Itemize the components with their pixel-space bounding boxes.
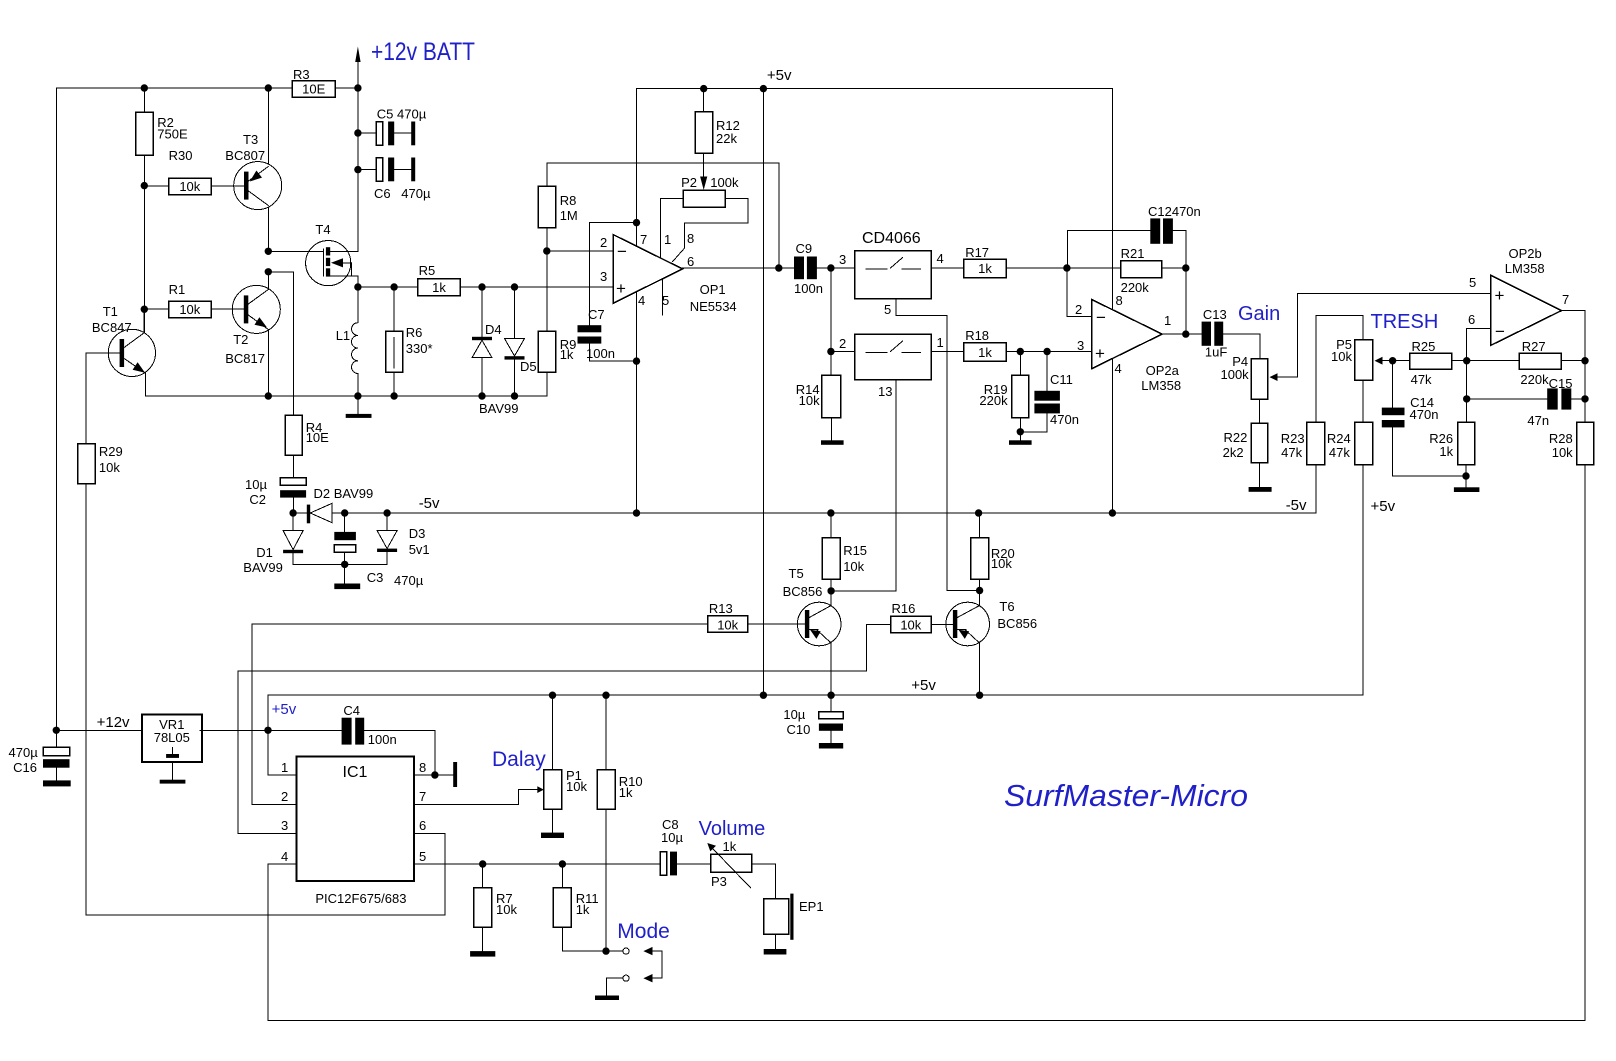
wire R23 top to P5 top — [1316, 315, 1363, 422]
inductor L1 — [336, 287, 358, 396]
svg-text:5: 5 — [1469, 275, 1476, 290]
svg-text:4: 4 — [638, 293, 645, 308]
svg-text:Dalay: Dalay — [492, 748, 546, 771]
svg-text:P2: P2 — [681, 175, 697, 190]
svg-text:C9: C9 — [796, 241, 813, 256]
svg-text:10k: 10k — [1552, 445, 1573, 460]
svg-text:NE5534: NE5534 — [690, 299, 737, 314]
svg-text:+5v: +5v — [1371, 498, 1396, 515]
wire OP2b pin6 — [1463, 312, 1491, 422]
svg-text:T3: T3 — [243, 132, 258, 147]
svg-text:47k: 47k — [1281, 445, 1302, 460]
potentiometer P4 — [1220, 294, 1490, 400]
svg-text:10k: 10k — [566, 779, 587, 794]
svg-text:4: 4 — [281, 849, 288, 864]
svg-text:5: 5 — [419, 849, 426, 864]
svg-text:R5: R5 — [419, 263, 436, 278]
svg-text:T5: T5 — [789, 566, 804, 581]
wire feedback row R8 top to OP1 output — [547, 163, 783, 272]
wire +5v riser to bottom +5v row — [267, 695, 269, 775]
svg-text:C7: C7 — [588, 307, 605, 322]
svg-text:-5v: -5v — [419, 495, 440, 512]
op-amp OP2a — [1092, 300, 1181, 394]
svg-text:C15: C15 — [1549, 376, 1573, 391]
svg-text:10k: 10k — [99, 460, 120, 475]
svg-text:13: 13 — [878, 384, 892, 399]
svg-text:C10: C10 — [787, 722, 811, 737]
svg-text:D4: D4 — [485, 322, 502, 337]
transistor T4 mosfet — [265, 222, 358, 287]
diode D5 — [505, 287, 537, 396]
svg-text:R29: R29 — [99, 444, 123, 459]
wire +12v node row — [53, 714, 142, 734]
svg-text:1k: 1k — [978, 345, 992, 360]
pin 8 of OP2a — [1112, 89, 1122, 310]
resistor R8 — [538, 163, 577, 251]
svg-text:BC807: BC807 — [225, 148, 265, 163]
IC1 PIC12F675/683 — [296, 757, 414, 906]
svg-text:BAV99: BAV99 — [479, 401, 519, 416]
svg-text:47k: 47k — [1329, 445, 1350, 460]
resistor R22 — [1223, 399, 1272, 492]
svg-text:R23: R23 — [1281, 431, 1305, 446]
svg-text:C16: C16 — [13, 760, 37, 775]
svg-text:470µ: 470µ — [9, 745, 39, 760]
svg-text:100n: 100n — [586, 346, 615, 361]
svg-text:1: 1 — [937, 335, 944, 350]
svg-text:LM358: LM358 — [1505, 261, 1545, 276]
resistor R25 — [1410, 339, 1520, 387]
svg-text:470n: 470n — [1410, 407, 1439, 422]
svg-text:2: 2 — [600, 235, 607, 250]
svg-text:470µ: 470µ — [401, 186, 431, 201]
svg-text:8: 8 — [687, 231, 694, 246]
svg-text:2k2: 2k2 — [1223, 445, 1244, 460]
capacitor C6 — [354, 158, 431, 202]
svg-text:5v1: 5v1 — [409, 542, 430, 557]
resistor R14 — [796, 375, 844, 445]
wire OP2a pin2 — [1067, 268, 1092, 317]
svg-text:R3: R3 — [293, 67, 310, 82]
ground below L1 — [346, 396, 372, 418]
capacitor C2 — [245, 455, 306, 513]
svg-text:4: 4 — [937, 251, 944, 266]
svg-text:C2: C2 — [249, 492, 266, 507]
svg-text:1M: 1M — [560, 208, 578, 223]
wire OP2a output — [1162, 268, 1202, 338]
diode D3 zener — [345, 513, 430, 564]
svg-text:R1: R1 — [169, 282, 186, 297]
wire OP2b output pin7 — [1561, 292, 1585, 422]
resistor R16 — [867, 601, 953, 671]
svg-text:6: 6 — [1468, 312, 1475, 327]
svg-text:220k: 220k — [1520, 372, 1549, 387]
svg-text:R16: R16 — [892, 601, 916, 616]
svg-text:C3: C3 — [367, 570, 384, 585]
capacitor C4 — [342, 703, 435, 775]
svg-text:750E: 750E — [157, 127, 188, 142]
capacitor C14 — [1382, 361, 1466, 476]
resistor R5 — [418, 263, 460, 296]
switch Mode contacts — [623, 947, 662, 983]
svg-text:−: − — [1096, 308, 1106, 327]
resistor R9 — [538, 251, 576, 396]
svg-text:22k: 22k — [716, 131, 737, 146]
svg-text:+12v: +12v — [97, 714, 130, 731]
svg-text:OP2a: OP2a — [1146, 363, 1180, 378]
wire bottom row pin4 to R28 — [268, 1019, 1585, 1021]
svg-text:P3: P3 — [711, 874, 727, 889]
svg-text:1k: 1k — [576, 902, 590, 917]
svg-text:10k: 10k — [991, 556, 1012, 571]
wire R2 column to T1 collector — [141, 182, 148, 333]
svg-text:470n: 470n — [1050, 412, 1079, 427]
pin 4 of OP1 — [633, 292, 645, 513]
svg-text:100n: 100n — [368, 732, 397, 747]
svg-text:BAV99: BAV99 — [243, 560, 283, 575]
svg-text:10k: 10k — [1331, 349, 1352, 364]
svg-text:+5v: +5v — [272, 701, 297, 718]
svg-text:R30: R30 — [169, 148, 193, 163]
svg-text:R22: R22 — [1224, 430, 1248, 445]
transistor T6 — [946, 587, 1037, 695]
svg-text:D5: D5 — [520, 359, 537, 374]
svg-text:1k: 1k — [432, 280, 446, 295]
svg-text:3: 3 — [600, 269, 607, 284]
svg-text:R13: R13 — [709, 601, 733, 616]
capacitor C7 — [578, 223, 637, 362]
resistor R27 — [1519, 339, 1589, 387]
svg-text:R8: R8 — [560, 193, 577, 208]
svg-text:6: 6 — [687, 254, 694, 269]
capacitor C16 — [9, 730, 71, 786]
svg-text:470µ: 470µ — [394, 573, 424, 588]
svg-text:R25: R25 — [1412, 339, 1436, 354]
svg-text:8: 8 — [419, 760, 426, 775]
svg-text:PIC12F675/683: PIC12F675/683 — [315, 891, 406, 906]
resistor R18 — [931, 328, 1091, 361]
wire C9 node down to switch2 and R14 — [827, 268, 855, 375]
svg-text:6: 6 — [419, 818, 426, 833]
pin 1 of OP1 — [660, 199, 671, 258]
svg-text:78L05: 78L05 — [154, 730, 190, 745]
svg-text:10µ: 10µ — [661, 830, 683, 845]
svg-text:Volume: Volume — [699, 818, 766, 840]
svg-text:10k: 10k — [717, 618, 738, 633]
svg-text:10E: 10E — [302, 82, 325, 97]
wire +5v bottom row — [268, 677, 1363, 699]
svg-text:2: 2 — [839, 336, 846, 351]
potentiometer P2 — [660, 175, 748, 223]
wire IC1 pin2 — [252, 624, 296, 804]
resistor R23 — [1281, 422, 1325, 513]
svg-text:D2 BAV99: D2 BAV99 — [314, 486, 374, 501]
svg-text:TRESH: TRESH — [1371, 311, 1439, 333]
svg-text:3: 3 — [839, 252, 846, 267]
capacitor C11 — [1020, 348, 1079, 432]
+5v rail top — [637, 67, 1113, 92]
pin 5 of OP1 — [662, 280, 669, 315]
svg-text:2: 2 — [281, 789, 288, 804]
IC CD4066 switch A — [839, 230, 944, 299]
capacitor C3 — [334, 513, 423, 589]
capacitor C12 — [1067, 204, 1200, 268]
wire IC1 pin6 — [86, 818, 445, 915]
resistor R29 — [78, 353, 123, 915]
svg-text:10E: 10E — [306, 430, 329, 445]
svg-text:1: 1 — [281, 760, 288, 775]
svg-text:BC856: BC856 — [783, 584, 823, 599]
wire R16 row to IC1 pin3 — [238, 671, 867, 833]
wire pin2 node — [543, 247, 613, 254]
svg-text:1k: 1k — [619, 785, 633, 800]
main ground row y=396 — [146, 392, 547, 399]
svg-text:3: 3 — [281, 818, 288, 833]
svg-text:10k: 10k — [843, 559, 864, 574]
potentiometer P1 — [541, 695, 587, 838]
svg-text:T6: T6 — [999, 599, 1014, 614]
svg-text:R15: R15 — [843, 543, 867, 558]
svg-text:47n: 47n — [1527, 413, 1549, 428]
capacitor C15 — [1467, 376, 1589, 428]
resistor R1 — [144, 282, 244, 318]
svg-text:1uF: 1uF — [1205, 345, 1227, 360]
svg-text:R21: R21 — [1121, 246, 1145, 261]
transistor T1 — [86, 304, 155, 396]
wire +12v column down to T4 drain — [330, 88, 358, 251]
svg-text:10k: 10k — [799, 393, 820, 408]
resistor R28 — [1549, 422, 1594, 1020]
wire +5v vertical distribution — [762, 89, 764, 696]
svg-text:R17: R17 — [965, 245, 989, 260]
svg-text:T4: T4 — [315, 222, 330, 237]
svg-text:220k: 220k — [979, 393, 1008, 408]
wire P3 to EP1 — [752, 864, 776, 899]
svg-text:1: 1 — [1164, 313, 1171, 328]
svg-text:1k: 1k — [1439, 444, 1453, 459]
svg-text:330*: 330* — [406, 341, 433, 356]
wire T2/T3 node to R4 — [265, 268, 294, 415]
transistor T3 — [225, 88, 281, 251]
resistor R11 — [553, 864, 623, 955]
wire P5 bottom to R24 — [1362, 380, 1364, 422]
svg-text:1: 1 — [664, 232, 671, 247]
svg-text:10µ: 10µ — [245, 477, 267, 492]
IC CD4066 switch B — [839, 334, 944, 379]
svg-text:10k: 10k — [900, 618, 921, 633]
resistor R4 — [285, 415, 329, 455]
svg-text:10k: 10k — [496, 902, 517, 917]
op-amp OP2b — [1491, 246, 1562, 345]
svg-text:R18: R18 — [965, 328, 989, 343]
resistor R24 — [1327, 422, 1373, 695]
svg-text:4: 4 — [1115, 361, 1122, 376]
resistor R21 — [1063, 246, 1189, 295]
wire IC1 pin8 to ground — [414, 760, 457, 787]
potentiometer P5 — [1331, 337, 1409, 380]
svg-text:5: 5 — [662, 293, 669, 308]
svg-text:OP2b: OP2b — [1509, 246, 1542, 261]
resistor R26 — [1429, 422, 1479, 492]
svg-text:C6: C6 — [374, 186, 391, 201]
svg-text:2: 2 — [1075, 302, 1082, 317]
svg-text:D3: D3 — [409, 526, 426, 541]
resistor R19 — [979, 348, 1031, 445]
resistor R13 — [252, 601, 805, 633]
voltage regulator VR1 78L05 — [142, 714, 202, 783]
wire -5v row — [289, 495, 1315, 517]
resistor R20 — [971, 513, 1015, 591]
wire CD4066 pin5 control — [884, 299, 979, 591]
svg-text:7: 7 — [640, 232, 647, 247]
svg-text:−: − — [617, 242, 627, 261]
svg-text:BC856: BC856 — [997, 616, 1037, 631]
svg-text:+5v: +5v — [911, 677, 936, 694]
pin 4 of OP2a — [1112, 359, 1121, 513]
svg-text:10k: 10k — [179, 179, 200, 194]
row R5 / pin3 y=287 — [354, 283, 613, 290]
wire OP1 output row — [683, 267, 795, 269]
svg-text:IC1: IC1 — [343, 764, 368, 781]
wire VR1 output +5v row — [200, 701, 341, 734]
svg-text:+12v BATT: +12v BATT — [371, 38, 475, 66]
svg-text:7: 7 — [419, 789, 426, 804]
wire CD4066 pin13 control — [831, 380, 896, 591]
diode D1 — [243, 513, 344, 575]
svg-text:OP1: OP1 — [700, 282, 726, 297]
capacitor C10 — [783, 695, 843, 748]
resistor R3 — [292, 67, 335, 97]
svg-text:T2: T2 — [233, 332, 248, 347]
svg-text:100k: 100k — [710, 175, 739, 190]
pin 8 of OP1 — [673, 223, 695, 262]
wire left outer vertical — [55, 88, 57, 730]
svg-text:EP1: EP1 — [799, 899, 824, 914]
resistor R6 — [386, 287, 433, 396]
capacitor C8 — [660, 817, 710, 875]
svg-text:−: − — [1495, 322, 1505, 341]
wire C7 top to pin7 — [589, 219, 640, 226]
wire IC1 pin4 — [268, 849, 296, 1020]
svg-text:7: 7 — [1562, 292, 1569, 307]
svg-text:+5v: +5v — [767, 67, 792, 84]
svg-text:CD4066: CD4066 — [862, 230, 921, 247]
resistor R15 — [822, 513, 867, 606]
op-amp OP1 — [613, 235, 737, 315]
svg-text:R6: R6 — [406, 325, 423, 340]
svg-text:220k: 220k — [1121, 280, 1150, 295]
capacitor C5 — [354, 107, 427, 146]
svg-text:C11: C11 — [1050, 372, 1073, 387]
resistor R7 — [470, 864, 517, 957]
svg-text:+: + — [1095, 344, 1105, 363]
svg-text:+: + — [616, 279, 626, 298]
svg-text:BC847: BC847 — [92, 320, 132, 335]
resistor R2 — [136, 88, 188, 186]
svg-text:-5v: -5v — [1286, 497, 1307, 514]
resistor R12 — [695, 89, 740, 176]
svg-text:+: + — [1495, 286, 1505, 305]
svg-text:C13: C13 — [1203, 307, 1227, 322]
svg-text:C12470n: C12470n — [1148, 204, 1201, 219]
diode D4 — [472, 287, 502, 396]
svg-text:BC817: BC817 — [225, 351, 265, 366]
wire +12v top rail — [56, 84, 361, 91]
potentiometer P3 — [707, 839, 751, 889]
svg-text:3: 3 — [1077, 338, 1084, 353]
svg-text:47k: 47k — [1411, 372, 1432, 387]
wire IC1 pin3 — [238, 818, 296, 833]
svg-text:R27: R27 — [1522, 339, 1546, 354]
svg-text:C5 470µ: C5 470µ — [377, 107, 427, 122]
svg-text:R28: R28 — [1549, 431, 1573, 446]
svg-text:Gain: Gain — [1238, 303, 1280, 325]
svg-text:R24: R24 — [1327, 431, 1351, 446]
svg-text:C4: C4 — [343, 703, 360, 718]
transistor T2 — [225, 272, 280, 396]
svg-text:100k: 100k — [1220, 367, 1249, 382]
svg-text:1k: 1k — [978, 261, 992, 276]
wire Mode lower contact to ground — [595, 978, 623, 1000]
svg-text:Mode: Mode — [617, 920, 670, 943]
capacitor C9 — [794, 241, 855, 296]
node +12v BATT — [355, 38, 475, 88]
resistor R10 — [597, 695, 643, 951]
svg-text:8: 8 — [1116, 293, 1123, 308]
svg-text:10k: 10k — [179, 302, 200, 317]
wire IC1 pin1 — [268, 730, 296, 775]
speaker EP1 — [764, 894, 824, 955]
svg-text:L1: L1 — [336, 328, 350, 343]
capacitor C13 — [1202, 307, 1261, 360]
svg-text:100n: 100n — [794, 281, 823, 296]
resistor R30 — [144, 148, 244, 195]
resistor R17 — [931, 245, 1120, 278]
svg-text:SurfMaster-Micro: SurfMaster-Micro — [1004, 778, 1248, 813]
pin 7 of OP1 — [637, 89, 648, 247]
svg-text:10µ: 10µ — [783, 707, 805, 722]
diode D2 — [307, 486, 373, 523]
svg-text:T1: T1 — [103, 304, 118, 319]
svg-text:1k: 1k — [560, 347, 574, 362]
wire IC1 pin7 to P1 wiper — [414, 786, 544, 804]
wire IC1 pin5 row — [414, 849, 660, 868]
transistor T5 — [783, 566, 841, 695]
svg-text:D1: D1 — [256, 545, 273, 560]
svg-text:LM358: LM358 — [1141, 378, 1181, 393]
svg-text:1k: 1k — [723, 839, 737, 854]
svg-text:5: 5 — [884, 302, 891, 317]
